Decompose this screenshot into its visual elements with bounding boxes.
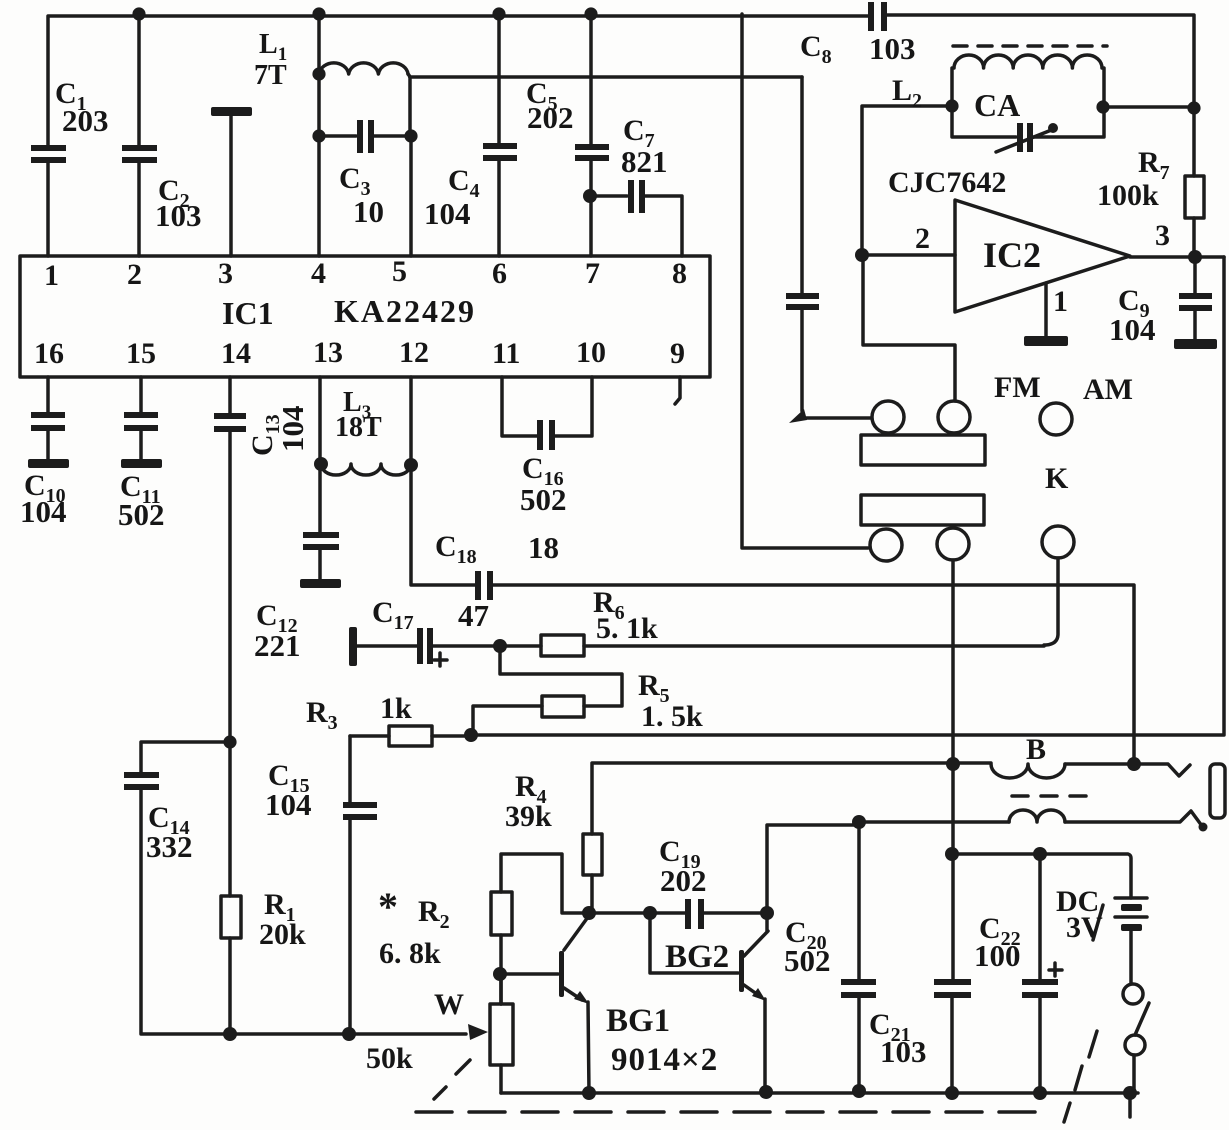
svg-text:W: W (434, 988, 464, 1021)
svg-text:39k: 39k (505, 800, 552, 833)
svg-text:202: 202 (660, 863, 707, 898)
svg-text:103: 103 (880, 1034, 927, 1069)
svg-text:10: 10 (353, 194, 384, 229)
svg-text:332: 332 (146, 829, 193, 864)
svg-text:12: 12 (399, 336, 429, 369)
svg-text:3: 3 (1155, 219, 1170, 252)
svg-text:104: 104 (265, 787, 312, 822)
svg-text:104: 104 (424, 196, 471, 231)
svg-text:KA22429: KA22429 (334, 293, 476, 329)
svg-text:4: 4 (311, 257, 326, 290)
svg-text:3V: 3V (1066, 911, 1103, 944)
svg-text:6: 6 (492, 257, 507, 290)
svg-text:11: 11 (492, 337, 520, 370)
svg-text:B: B (1026, 733, 1046, 766)
svg-text:18T: 18T (335, 412, 382, 443)
svg-text:13: 13 (313, 336, 343, 369)
svg-text:5. 1k: 5. 1k (596, 612, 658, 645)
svg-text:821: 821 (621, 144, 668, 179)
svg-text:502: 502 (118, 497, 165, 532)
svg-text:18: 18 (528, 530, 559, 565)
svg-text:5: 5 (392, 255, 407, 288)
svg-text:1: 1 (44, 259, 59, 292)
svg-text:9: 9 (670, 337, 685, 370)
svg-text:104: 104 (1109, 312, 1156, 347)
svg-text:7: 7 (585, 257, 600, 290)
svg-text:14: 14 (221, 337, 251, 370)
svg-text:203: 203 (62, 103, 109, 138)
svg-text:1. 5k: 1. 5k (641, 700, 703, 733)
svg-text:IC1: IC1 (222, 295, 274, 331)
svg-text:FM: FM (994, 371, 1041, 404)
svg-text:AM: AM (1083, 373, 1133, 406)
svg-text:502: 502 (784, 943, 831, 978)
svg-text:15: 15 (126, 337, 156, 370)
svg-text:47: 47 (458, 598, 489, 633)
svg-text:2: 2 (915, 222, 930, 255)
svg-text:9014×2: 9014×2 (611, 1042, 718, 1078)
svg-text:IC2: IC2 (983, 235, 1041, 275)
svg-text:7T: 7T (254, 60, 287, 91)
svg-text:1k: 1k (380, 692, 412, 725)
svg-text:103: 103 (869, 31, 916, 66)
svg-text:CA: CA (974, 87, 1020, 123)
svg-text:20k: 20k (259, 918, 306, 951)
svg-text:16: 16 (34, 337, 64, 370)
svg-text:3: 3 (218, 257, 233, 290)
svg-text:8: 8 (672, 257, 687, 290)
svg-text:2: 2 (127, 258, 142, 291)
svg-text:202: 202 (527, 100, 574, 135)
svg-text:CJC7642: CJC7642 (888, 166, 1006, 199)
svg-text:BG1: BG1 (606, 1003, 670, 1039)
svg-text:6. 8k: 6. 8k (379, 937, 441, 970)
svg-text:502: 502 (520, 482, 567, 517)
svg-text:10: 10 (576, 336, 606, 369)
svg-text:100k: 100k (1097, 179, 1159, 212)
svg-text:*: * (378, 884, 398, 929)
svg-text:BG2: BG2 (665, 939, 729, 975)
svg-text:104: 104 (20, 494, 67, 529)
svg-text:104: 104 (275, 406, 310, 453)
svg-text:103: 103 (155, 198, 202, 233)
svg-text:1: 1 (1053, 285, 1068, 318)
svg-text:100: 100 (974, 938, 1021, 973)
svg-text:K: K (1045, 462, 1069, 495)
svg-text:221: 221 (254, 628, 301, 663)
svg-text:50k: 50k (366, 1042, 413, 1075)
